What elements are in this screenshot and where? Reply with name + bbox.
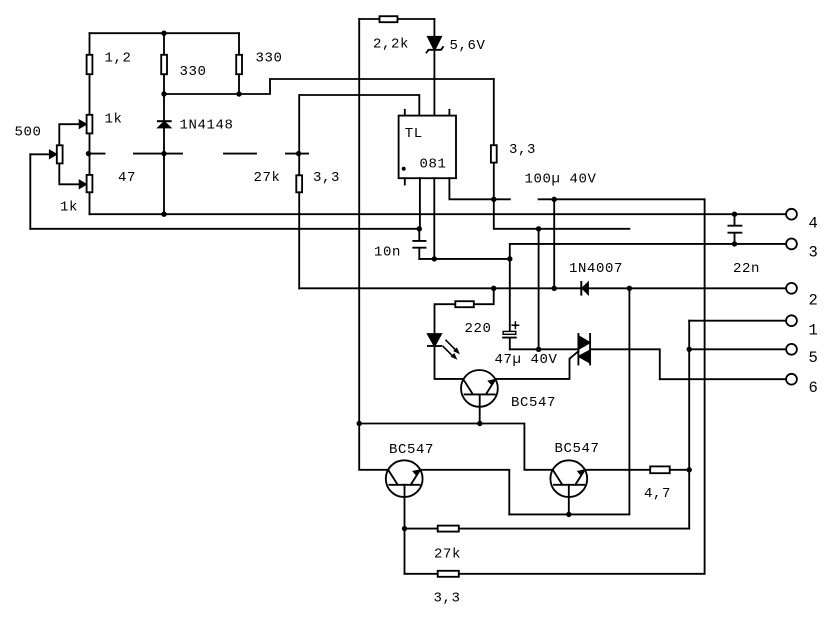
wiper arrow 500 <box>49 150 56 159</box>
wire triac right to jog <box>590 349 660 379</box>
wire 27k rail y=528.6 <box>405 528 690 530</box>
wiper 500 wire <box>30 153 57 155</box>
svg-text:BC547: BC547 <box>511 395 556 411</box>
svg-text:3,3: 3,3 <box>313 170 340 186</box>
zener diode 5,6V <box>433 19 435 116</box>
terminal 1 <box>786 315 797 326</box>
resistor 3,3 bottom <box>438 571 459 577</box>
svg-text:100µ 40V: 100µ 40V <box>525 172 597 188</box>
resistor 220 <box>455 301 474 307</box>
wire opamp pin x=449.4 to y=199 <box>449 178 493 199</box>
svg-text:5: 5 <box>809 349 818 367</box>
terminal 5 <box>786 344 797 355</box>
wire 3,3 rail y=573.8 <box>405 573 705 575</box>
resistor 27k bottom <box>438 526 459 532</box>
wire 500 wiper down to rail y=228.8 <box>29 154 31 229</box>
junction dot: node Q1 base rail left <box>357 421 362 426</box>
wire node under 330s y=94 <box>164 79 494 94</box>
potentiometer 1k lower body <box>87 175 93 192</box>
junction dot: node wire2 100u tap <box>552 286 557 291</box>
wire 4 rail y=214.2 <box>90 213 787 215</box>
wire left rail x=89.5 <box>89 33 91 214</box>
capacitor 100u gap wire <box>494 198 705 200</box>
svg-text:3: 3 <box>809 244 818 262</box>
transistor Q3 BC547 <box>550 460 587 497</box>
junction dot: node 3,3 bottom <box>491 197 496 202</box>
svg-text:1k: 1k <box>60 200 78 216</box>
svg-text:081: 081 <box>420 157 447 173</box>
potentiometer 1k upper body <box>87 115 93 134</box>
wire 1 rail <box>689 320 786 322</box>
wire Q3 emitter to 4,7 <box>585 469 689 471</box>
op-amp TL081 box <box>399 116 456 179</box>
svg-text:1: 1 <box>809 322 818 340</box>
svg-text:2: 2 <box>809 292 818 310</box>
svg-text:4,7: 4,7 <box>644 486 671 502</box>
wire rail y=228.8 <box>30 228 419 230</box>
wire 220 branch <box>435 288 494 334</box>
svg-text:330: 330 <box>180 64 207 80</box>
junction dot: node centerline diode branch <box>161 151 166 156</box>
junction dot: node wire3 branch <box>507 256 512 261</box>
wire 5 rail <box>689 348 786 350</box>
wire x=359 long vertical <box>359 19 388 470</box>
capacitor 22n <box>728 214 741 244</box>
svg-text:1k: 1k <box>105 112 123 128</box>
wire 6 rail <box>660 378 787 380</box>
capacitor 10n <box>413 229 425 259</box>
junction dot: node Q2 base 27k tap <box>402 526 407 531</box>
svg-text:330: 330 <box>256 51 283 67</box>
wire top-left horizontal <box>90 32 240 34</box>
capacitor 47u bottom plate <box>503 338 516 350</box>
svg-text:5,6V: 5,6V <box>450 38 486 54</box>
wire divider to opamp input y=95 <box>300 95 420 116</box>
junction dot: node top rail / 330 branch <box>161 31 166 36</box>
resistor 3,3 right <box>491 145 497 162</box>
junction dot: node wiper centerline left <box>86 151 91 156</box>
transistor Q1 BC547 <box>461 370 498 407</box>
junction dot: node 4,7 right <box>687 467 692 472</box>
resistor 4,7 <box>650 466 670 473</box>
wire 330 right branch x=239 <box>238 33 240 94</box>
transistor Q2 BC547 <box>386 460 423 497</box>
svg-text:3,3: 3,3 <box>434 591 461 607</box>
wire Q1 collector to triac gate <box>497 351 579 379</box>
svg-text:47µ 40V: 47µ 40V <box>495 352 558 368</box>
potentiometer 500 body <box>57 145 63 163</box>
terminal 3 <box>786 239 797 250</box>
junction dot: node 47u bottom <box>536 347 541 352</box>
svg-text:BC547: BC547 <box>389 442 434 458</box>
svg-text:6: 6 <box>809 379 818 397</box>
svg-text:1,2: 1,2 <box>105 51 132 67</box>
svg-text:4: 4 <box>809 215 818 233</box>
wire 2,2k top loop <box>359 18 434 20</box>
junction dot: node 100u right <box>552 197 557 202</box>
junction dot: node wire2 220 tap <box>491 286 496 291</box>
wiper arrow lower 1k <box>79 180 86 189</box>
resistor 2,2k <box>380 16 398 22</box>
junction dot: node wire3 22n tap <box>732 241 737 246</box>
junction dot: node Q1 base <box>477 421 482 426</box>
svg-text:2,2k: 2,2k <box>373 37 409 53</box>
svg-text:500: 500 <box>15 125 42 141</box>
svg-text:TL: TL <box>405 126 423 142</box>
terminal 6 <box>786 374 797 385</box>
svg-text:BC547: BC547 <box>555 441 600 457</box>
wiper arrow upper 1k <box>79 120 86 129</box>
wire x=538.6 vertical <box>538 229 540 349</box>
wire 2 rail y=288.3 <box>299 287 786 289</box>
junction dot: node wire2 right tap <box>627 286 632 291</box>
triac <box>578 334 590 365</box>
junction dot: node rail 47u tap <box>536 226 541 231</box>
svg-text:10n: 10n <box>374 245 401 261</box>
wire x=509.8 down to 47u <box>509 259 511 332</box>
junction dot: node wire5 junction <box>687 347 692 352</box>
dashed centerline <box>89 153 309 155</box>
svg-text:27k: 27k <box>434 546 461 562</box>
wire opamp pin x=434.3 <box>433 178 435 259</box>
junction dot: node centerline right <box>296 151 301 156</box>
plus sign 47u <box>512 322 518 328</box>
wire x=554 vertical <box>553 199 555 288</box>
wire x=704 long vertical <box>704 199 706 574</box>
terminal 2 <box>786 283 797 294</box>
LED <box>428 334 441 346</box>
capacitor 47u polarized top plate <box>503 331 516 334</box>
junction dot: node Q3 base <box>566 512 571 517</box>
resistor 330 middle <box>161 55 167 74</box>
potentiometer wiper link upper <box>59 124 86 145</box>
resistor 330 right <box>236 55 242 74</box>
junction dot: node opamp output <box>432 256 437 261</box>
wire y=258.9 <box>419 258 510 260</box>
diode 1N4148 <box>158 122 171 128</box>
svg-text:22n: 22n <box>733 261 760 277</box>
wire opamp pin to rail x=419.9 <box>419 178 421 229</box>
svg-text:47: 47 <box>118 170 136 186</box>
resistor 27k/3,3 <box>296 175 302 192</box>
svg-text:27k: 27k <box>254 170 281 186</box>
resistor R 1,2 <box>87 55 93 74</box>
diode 1N4007 <box>580 282 582 295</box>
op-amp bottom pin stub <box>404 178 406 184</box>
junction dot: node 10n top <box>417 226 422 231</box>
svg-text:220: 220 <box>465 321 492 337</box>
wire 330 branch x=164 <box>163 33 165 214</box>
wire x=299 branch <box>298 95 300 288</box>
svg-text:1N4007: 1N4007 <box>569 261 623 277</box>
wire Q2 emitter jog <box>421 470 510 515</box>
junction dot: node bottom rail left <box>161 212 166 217</box>
potentiometer wiper link lower <box>59 163 86 184</box>
wire 3 rail y=243.9 <box>510 244 787 259</box>
LED arrows <box>443 340 456 356</box>
terminal 4 <box>786 209 797 220</box>
svg-text:3,3: 3,3 <box>509 142 536 158</box>
wire base rail y=423.5 <box>359 424 552 470</box>
wire x=628.9 vertical <box>509 288 629 514</box>
svg-text:1N4148: 1N4148 <box>180 118 234 134</box>
op-amp pin1 dot <box>402 167 406 171</box>
wire x=494 down to y=228.6 <box>494 199 630 229</box>
wire 3,3 branch x=493.8 <box>493 79 495 199</box>
junction dot: node 330 bottom left <box>161 91 166 96</box>
junction dot: node 330 bottom right <box>236 91 241 96</box>
wire triac left y=349.3 <box>510 348 579 350</box>
op-amp top pin stubs <box>405 110 450 116</box>
junction dot: node wire4 22n tap <box>732 212 737 217</box>
wire x=689 vertical <box>688 321 690 529</box>
